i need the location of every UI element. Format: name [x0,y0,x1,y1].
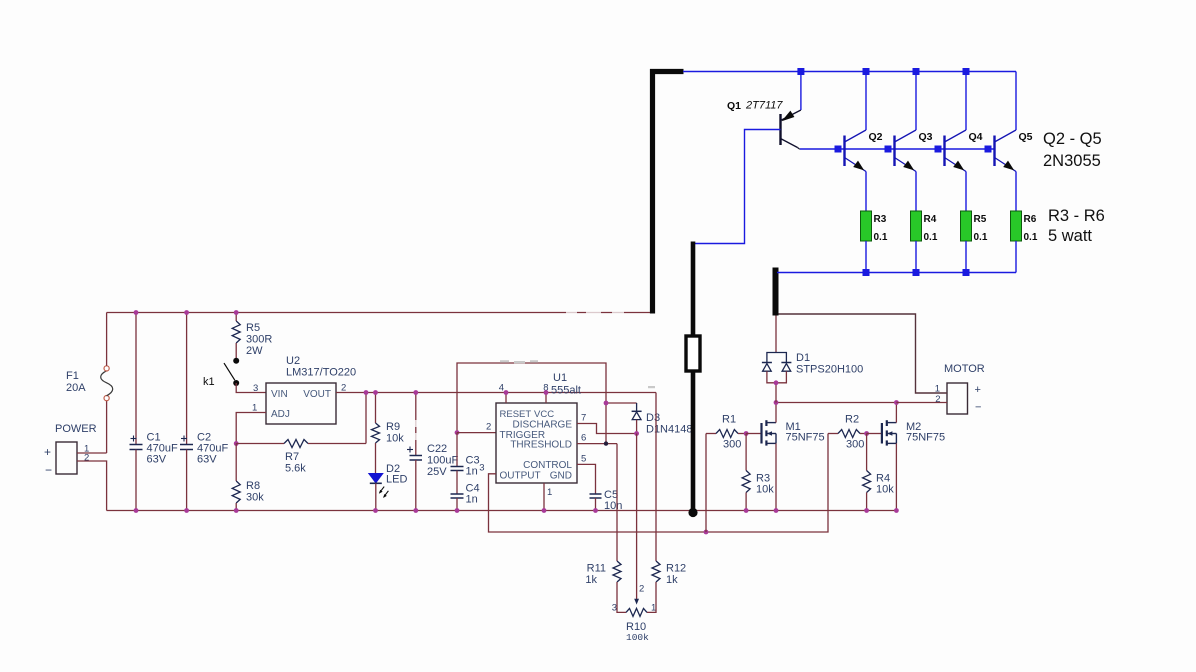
transistor Q2 [845,130,883,172]
node VOUT rail / R9 [373,390,378,395]
wire Q1 base [693,130,781,244]
wire pin2 stub [457,432,496,434]
svg-text:R3 - R6: R3 - R6 [1048,207,1105,225]
svg-text:R1: R1 [722,414,736,426]
svg-text:Q2: Q2 [869,131,883,143]
node base rail [885,146,892,153]
node base rail [835,146,842,153]
LED D2 [369,463,408,511]
svg-text:1n: 1n [466,466,478,478]
wire Q4 collector [965,72,967,131]
svg-text:1k: 1k [585,574,597,586]
regulator U2 LM317 [252,355,356,424]
svg-text:R6: R6 [1024,214,1037,225]
wire pin7 DISCHARGE [577,424,637,434]
wire R10 wiper [636,434,638,600]
wire C22 faded segments [415,420,417,440]
svg-text:Q5: Q5 [1019,131,1033,143]
svg-text:10n: 10n [604,500,622,512]
svg-text:20A: 20A [66,382,86,394]
resistor R11 [585,444,626,613]
svg-text:555alt: 555alt [551,385,581,397]
wire M1 source to ground [775,443,777,510]
svg-text:0.1: 0.1 [924,232,938,243]
svg-text:1: 1 [547,487,552,498]
svg-text:MOTOR: MOTOR [944,363,985,375]
wire Q3 collector [915,72,917,131]
resistor R7 [236,393,366,475]
transistor M1 [762,420,825,445]
wire bottom ground rail [107,510,897,512]
svg-text:Q2 - Q5: Q2 - Q5 [1043,130,1102,148]
svg-text:R11: R11 [587,563,606,575]
svg-text:F1: F1 [66,370,79,382]
node base rail [935,146,942,153]
node emitter rail [863,269,870,276]
svg-text:D3: D3 [646,412,660,424]
resistor R4 (10k) [863,434,895,511]
svg-text:C22: C22 [427,443,447,455]
resistor R8 [232,444,264,511]
svg-text:R12: R12 [666,563,686,575]
wire M2 source to ground [895,443,897,510]
wire R6 to emitter rail [1015,241,1017,273]
node R1 / M1 gate / R3 [744,431,749,436]
svg-text:300: 300 [723,439,741,451]
node VOUT rail / C22 [413,390,418,395]
wire pin3 OUTPUT to gate feed rail [489,434,829,533]
svg-text:300R: 300R [246,334,272,346]
wire pin1 GND [543,483,545,511]
svg-text:0.1: 0.1 [874,232,888,243]
svg-text:4: 4 [499,383,504,394]
node D3 / pin7 / wiper [634,431,639,436]
svg-text:1k: 1k [666,574,678,586]
capacitor C4 [451,471,480,511]
wire pin6 THRESHOLD [577,443,617,445]
node pin6 / link [604,441,608,445]
svg-text:R5: R5 [246,322,260,334]
svg-text:0.1: 0.1 [1024,232,1038,243]
wire Q3 emitter [915,172,917,212]
svg-text:R3: R3 [874,214,887,225]
svg-text:75NF75: 75NF75 [906,432,945,444]
thick feed wire (top left) [650,69,684,74]
wire pin5 CONTROL to C5 [577,464,596,494]
svg-text:30k: 30k [246,492,264,504]
svg-text:R5: R5 [974,214,987,225]
svg-text:VCC: VCC [534,409,554,420]
svg-text:Q3: Q3 [919,131,933,143]
svg-text:OUTPUT: OUTPUT [500,471,541,482]
svg-text:100k: 100k [626,632,649,643]
svg-text:Q1: Q1 [727,100,741,112]
svg-text:2W: 2W [246,345,263,357]
node ADJ/R7/R8 [234,441,239,446]
timer U1 555 [496,372,581,483]
wire Q5 collector [1015,72,1017,131]
wire R5 to emitter rail [965,241,967,273]
node ground rail / C4 [455,508,460,513]
wire M2 gate stub [867,433,882,435]
wire ADJ to R7/R8 node [236,413,266,444]
wire trigger link faded segments [500,360,655,388]
wire Q2-Q5 base rail [800,148,995,150]
node ground rail / C1 [134,508,139,513]
svg-text:3: 3 [253,383,258,394]
svg-text:5: 5 [581,454,586,465]
node ground rail / base drive [688,508,697,517]
wire switch to VIN [236,383,266,393]
wire Q2 collector [865,72,867,131]
node ground rail / R3 [744,508,749,513]
svg-text:2: 2 [84,453,89,464]
capacitor C2 [180,313,228,511]
node collector rail / Q1 [797,68,804,75]
potentiometer R10 [612,584,657,644]
wire M2 drain [895,403,897,423]
capacitor C3 [451,433,480,478]
svg-text:GND: GND [550,471,572,482]
svg-text:5.6k: 5.6k [285,463,306,475]
node ground rail / R8 [234,508,239,513]
svg-text:0.1: 0.1 [974,232,988,243]
wire R3 to emitter rail [865,241,867,273]
node link / D3 branch [604,401,609,406]
node drain rail / M1 / D1 [774,400,779,405]
node ground rail / M1 source [774,508,779,513]
node D1 output [774,380,779,385]
svg-text:CONTROL: CONTROL [523,460,572,471]
resistor R9 [372,393,405,474]
svg-text:6: 6 [581,433,586,444]
node R2 / M2 gate / R4 [864,431,869,436]
node top rail / C1 [134,310,139,315]
node ground rail / C22 [413,508,418,513]
wire trigger-threshold link (pins 2-6) [457,363,606,444]
svg-text:RESET: RESET [500,409,532,420]
node VOUT rail / pin8 [544,390,549,395]
svg-text:10k: 10k [876,484,894,496]
svg-text:LM317/TO220: LM317/TO220 [286,367,356,379]
svg-text:VOUT: VOUT [303,389,331,400]
wire Q2 emitter [865,172,867,212]
svg-text:2T7117: 2T7117 [745,100,783,112]
svg-text:ADJ: ADJ [271,409,290,420]
diode D3 [606,403,692,436]
thick base drive drop [691,242,696,337]
node collector rail [863,68,870,75]
svg-text:2: 2 [935,394,940,405]
svg-text:63V: 63V [147,454,167,466]
node trigger / C3 [455,430,460,435]
svg-text:STPS20H100: STPS20H100 [796,364,863,376]
svg-text:R7: R7 [285,451,299,463]
svg-text:R8: R8 [246,480,260,492]
svg-text:75NF75: 75NF75 [786,432,825,444]
wire pin8 VCC to VOUT rail [545,393,547,404]
wire Q4 emitter [965,172,967,212]
wire blue emitter rail [777,272,1016,274]
wire Q1 emitter to rail [800,72,802,111]
node ground rail / R4 [864,508,869,513]
svg-text:DISCHARGE: DISCHARGE [513,420,573,431]
svg-text:−: − [45,463,52,477]
svg-text:−: − [975,402,981,414]
svg-text:R2: R2 [845,414,859,426]
svg-text:POWER: POWER [55,423,97,435]
svg-text:THRESHOLD: THRESHOLD [510,440,572,451]
svg-text:3: 3 [479,463,484,474]
node emitter rail [913,269,920,276]
svg-text:U1: U1 [553,372,567,384]
capacitor C22 [407,393,458,511]
wire top supply rail [107,312,653,314]
node ground rail / C2 [184,508,189,513]
wire M1 gate stub [746,433,761,435]
svg-text:LED: LED [386,474,407,486]
node top rail / C2 [184,310,189,315]
wire pin4 RESET to VOUT rail [505,393,507,404]
svg-text:3: 3 [612,603,617,614]
wire blue collector rail [683,71,1016,73]
capacitor C1 [130,313,178,511]
resistor R5 [232,313,272,359]
switch k1 [203,358,239,388]
resistor R6 (0.1) [1011,211,1038,243]
svg-text:Q4: Q4 [969,131,983,143]
wire motor pin2 to drain rail [896,402,947,404]
transistor Q5 [995,130,1033,172]
svg-text:10k: 10k [386,433,404,445]
connector J POWER [44,423,97,477]
svg-text:R4: R4 [924,214,937,225]
svg-text:5 watt: 5 watt [1048,227,1092,245]
svg-text:R9: R9 [386,421,400,433]
wire POWER pin1 to fuse [77,452,107,454]
node gate feed / R1 [704,530,709,535]
svg-text:D1N4148: D1N4148 [646,424,692,436]
fuse F1 [66,313,113,454]
capacitor C5 [590,489,623,512]
svg-text:+: + [44,445,51,459]
svg-text:+: + [975,384,981,396]
node VOUT rail / pin4 [504,390,509,395]
resistor R5 (0.1) [961,211,988,243]
transistor Q3 [895,130,933,172]
node base rail Q5 [985,146,992,153]
svg-text:D1: D1 [796,352,810,364]
node ground rail / pin1 [542,508,547,513]
svg-text:300: 300 [846,439,864,451]
node collector rail [963,68,970,75]
wire drain rail [776,402,896,404]
wire Q5 emitter [1015,172,1017,212]
node drain rail / M2 / motor [894,400,899,405]
node emitter rail [963,269,970,276]
resistor R3 (0.1) [861,211,888,243]
svg-text:k1: k1 [203,376,215,388]
svg-text:25V: 25V [427,466,447,478]
node ground rail / M2 source [894,508,899,513]
svg-text:2N3055: 2N3055 [1043,152,1101,170]
node ground rail / D2 [373,508,378,513]
svg-text:1n: 1n [466,494,478,506]
svg-text:2: 2 [486,422,491,433]
svg-text:2: 2 [639,584,644,595]
diode D1 dual schottky [762,315,863,403]
node top rail / R5 [234,310,239,315]
transistor Q4 [945,130,983,172]
wire motor pin1 to battery bar [778,314,947,393]
svg-text:10k: 10k [756,484,774,496]
svg-text:7: 7 [581,413,586,424]
resistor R4 (0.1) [911,211,938,243]
wire R4 to emitter rail [915,241,917,273]
svg-text:U2: U2 [286,355,300,367]
svg-text:100uF: 100uF [427,455,458,467]
wire top supply rail faded segments [566,311,624,316]
resistor R1 [706,414,746,533]
node collector rail [913,68,920,75]
resistor (base drive, unlabeled) [686,336,700,371]
resistor R12 [647,393,686,613]
transistor M2 [882,420,945,445]
connector MOTOR [935,363,985,414]
wire POWER pin2 to ground rail [77,461,107,511]
node ground rail / C5 [593,508,598,513]
resistor R2 [828,414,867,451]
thick emitter bus bar [773,268,779,316]
svg-text:63V: 63V [197,454,217,466]
wire VOUT rail [336,392,656,394]
transistor Q1 [727,100,801,150]
node VOUT rail / R7 [364,390,369,395]
thick base drive drop lower [691,371,696,510]
wire M1 drain [775,403,777,423]
svg-text:VIN: VIN [271,389,288,400]
resistor R3 (10k) [742,434,774,511]
